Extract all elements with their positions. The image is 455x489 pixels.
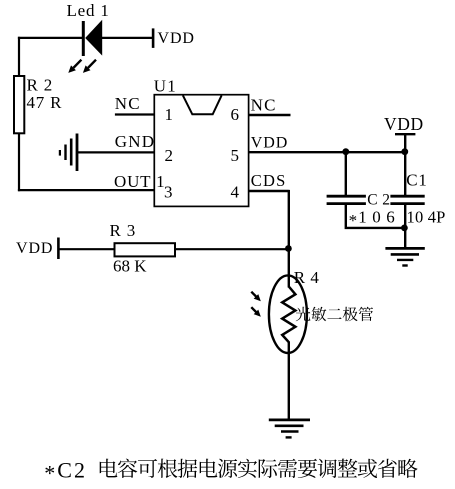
wire: OUT1 horizontal to U1 pin 3 [18, 189, 155, 191]
svg-text:U1: U1 [154, 77, 177, 96]
R4 light arrow 2 (pointing SE) [251, 307, 260, 317]
wire: R3 to CDS node [175, 248, 289, 250]
svg-text:1 0 6: 1 0 6 [358, 208, 395, 227]
svg-text:2: 2 [165, 146, 174, 165]
U1 orientation notch [183, 95, 222, 114]
VDD power terminal (R3 left) [57, 238, 60, 260]
svg-text:1: 1 [165, 105, 174, 124]
svg-text:NC: NC [115, 94, 141, 113]
svg-text:NC: NC [251, 95, 277, 114]
junction dot at R3/CDS node [285, 245, 292, 252]
wire: left rail vertical lower segment (R2 bottom to OUT1 row) [18, 133, 20, 191]
op-amp U1 body [154, 95, 248, 207]
wire: LED anode to VDD terminal [102, 37, 152, 39]
junction dot at pin5/C1/VDD node [401, 148, 408, 155]
svg-text:68 K: 68 K [113, 257, 147, 276]
svg-text:10 4P: 10 4P [407, 208, 446, 227]
note text C2 capacitor note (Chinese) [100, 459, 418, 478]
capacitor C2 plates [327, 196, 366, 203]
label 光敏二极管 (photodiode) [296, 307, 373, 322]
svg-text:OUT 1: OUT 1 [114, 172, 165, 191]
photoresistor R4 zigzag element [282, 287, 295, 343]
resistor R2 body [14, 76, 24, 133]
wire: C1 branch lower to ground [404, 205, 406, 249]
VDD power terminal (top-left) [152, 28, 155, 48]
ground symbol below C1 [385, 248, 424, 265]
svg-text:R 4: R 4 [294, 268, 320, 287]
wire: U1 pin 4 CDS elbow [249, 190, 289, 288]
svg-text:CDS: CDS [251, 171, 287, 190]
capacitor C1 plates [390, 196, 424, 203]
svg-text:47 R: 47 R [27, 93, 63, 112]
svg-text:GND: GND [115, 132, 155, 151]
wire: NC stub to U1 pin 1 [115, 113, 154, 115]
wire: VDD terminal to R3 [59, 248, 115, 250]
svg-text:C1: C1 [406, 170, 427, 189]
svg-text:C2: C2 [57, 457, 87, 482]
LED Led1 triangle (anode, pointing left) [85, 20, 102, 56]
svg-text:VDD: VDD [251, 135, 288, 152]
ground symbol below R4 [269, 420, 310, 438]
LED arrow 2 (light emission, pointing SW) [83, 60, 96, 73]
wire: C2 branch upper [345, 151, 347, 195]
wire: U1 pin 5 to VDD node [249, 151, 406, 153]
svg-text:R 3: R 3 [110, 221, 137, 240]
R4 light arrow 1 (pointing SE) [251, 292, 260, 302]
svg-text:VDD: VDD [16, 240, 53, 257]
svg-text:5: 5 [231, 146, 240, 165]
wire: R4 bottom to ground [288, 342, 290, 420]
svg-text:Led 1: Led 1 [67, 1, 110, 20]
junction dot at C2/C1 bottom node [401, 225, 408, 232]
svg-text:*: * [44, 460, 55, 485]
svg-text:4: 4 [231, 182, 240, 201]
resistor R3 body [115, 243, 176, 256]
VDD power terminal (top-right) [395, 134, 415, 152]
LED arrow 1 (light emission, pointing SW) [68, 60, 81, 73]
LED Led1 cathode bar [82, 21, 85, 56]
wire: top-left horizontal from left rail to LED cathode [18, 37, 82, 39]
wire: U1 pin 6 NC stub [249, 114, 291, 116]
svg-text:*: * [349, 211, 358, 230]
svg-text:C 2: C 2 [367, 191, 390, 208]
wire: left rail vertical upper segment (top corner to R2 top) [18, 37, 20, 77]
svg-text:R 2: R 2 [27, 76, 54, 95]
wire: C2 branch lower and across to C1 branch [345, 205, 406, 228]
svg-text:6: 6 [231, 105, 240, 124]
wire: ground to U1 pin 2 [77, 151, 154, 153]
svg-text:VDD: VDD [384, 114, 424, 134]
svg-text:VDD: VDD [158, 30, 195, 47]
wire: C1 branch upper [404, 152, 406, 195]
ground symbol at GND pin (rotated left) [60, 134, 77, 172]
junction dot at pin5/C2 node [342, 148, 349, 155]
photoresistor R4 envelope [269, 275, 307, 353]
